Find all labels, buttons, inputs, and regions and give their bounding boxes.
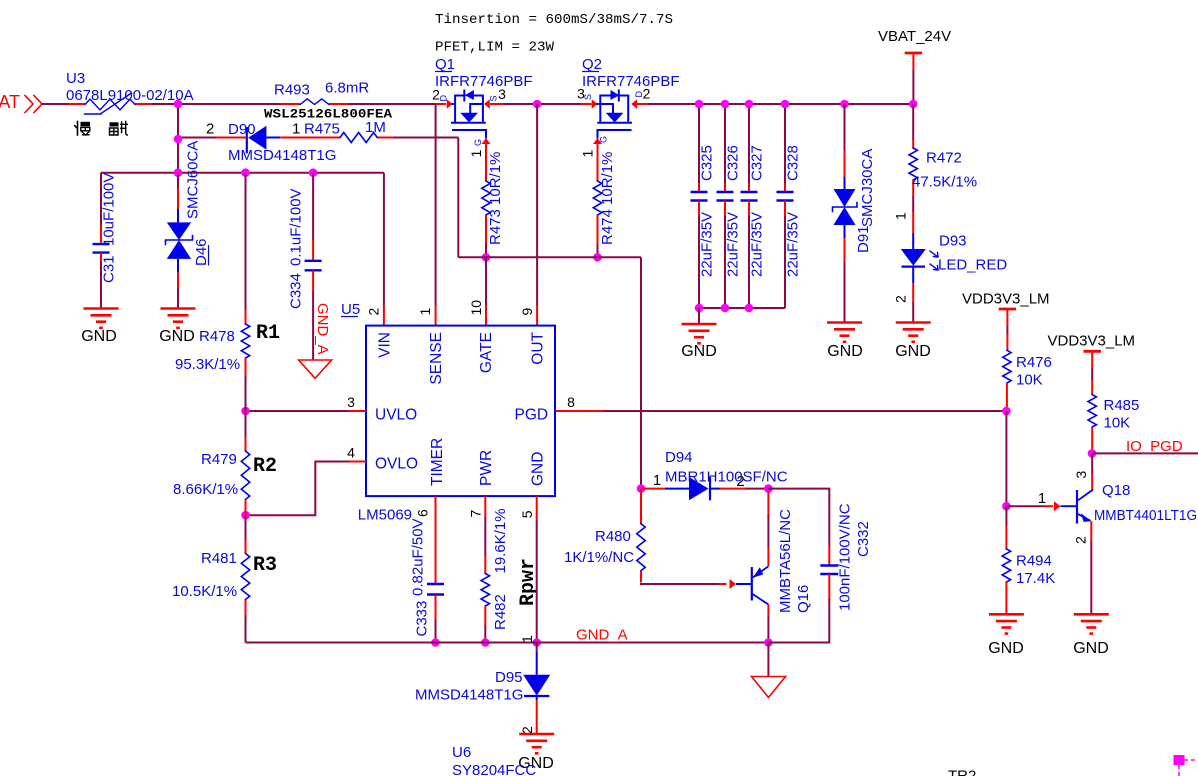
svg-text:D46: D46 [193, 238, 210, 266]
svg-text:GND: GND [681, 343, 717, 360]
node junction D90 line [174, 135, 183, 144]
node junction GND pin/D95 [532, 638, 541, 647]
svg-text:6: 6 [415, 509, 431, 517]
node junction R474 [593, 253, 602, 262]
node junction PGD/R476 [1002, 407, 1011, 416]
svg-text:0.82uF/50V: 0.82uF/50V [410, 518, 427, 596]
svg-text:GND: GND [81, 328, 117, 345]
svg-text:UVLO: UVLO [375, 407, 417, 424]
resistor R479 8.66K/1% R2 [245, 411, 247, 437]
svg-text:GND: GND [988, 640, 1024, 657]
wire PGD net [556, 410, 604, 412]
node junction Q16/GND_A [764, 638, 773, 647]
ground GND (cap bank) [698, 308, 700, 324]
svg-text:LED_RED: LED_RED [938, 257, 1007, 274]
resistor R475 1M [340, 133, 377, 143]
svg-text:GATE: GATE [478, 332, 495, 373]
text 慢 融 (slow blow) [75, 122, 78, 136]
resistor R474 10R/1% [597, 143, 599, 181]
svg-text:VDD3V3_LM: VDD3V3_LM [962, 291, 1050, 308]
svg-text:D: D [634, 91, 644, 98]
node junction Q1-Q2 source [533, 100, 542, 109]
svg-text:D95: D95 [495, 669, 523, 686]
svg-text:R473 10R/1%: R473 10R/1% [487, 152, 504, 245]
transistor Q18 MMBT4401LT1G (NPN) [1091, 453, 1093, 473]
node junction cap gnd 1 [695, 304, 704, 313]
svg-text:C328: C328 [785, 145, 802, 181]
wire OVLO net [348, 461, 366, 463]
svg-text:D91: D91 [855, 225, 872, 253]
ground GND (Q18) [1074, 613, 1109, 616]
svg-text:R3: R3 [253, 554, 277, 577]
ground GND (D91) [827, 321, 862, 324]
LED D93 LED_RED [912, 249, 914, 251]
svg-text:TR2: TR2 [948, 768, 976, 776]
svg-text:PFET,LIM = 23W: PFET,LIM = 23W [435, 41, 555, 56]
svg-text:D94: D94 [665, 449, 693, 466]
svg-text:0678L9100-02/10A: 0678L9100-02/10A [66, 87, 194, 104]
svg-text:S: S [583, 94, 593, 100]
svg-text:22uF/35V: 22uF/35V [785, 212, 802, 277]
svg-text:10uF/100V: 10uF/100V [101, 173, 118, 246]
node junction C333/GND_A [431, 638, 440, 647]
node junction cap gnd 2 [721, 304, 730, 313]
wire fuse junction drop [177, 104, 179, 139]
node junction VBAT riser [909, 100, 918, 109]
svg-text:PWR: PWR [478, 450, 495, 486]
svg-text:1: 1 [893, 212, 909, 220]
ground GND (C31) [84, 307, 119, 310]
svg-text:3: 3 [498, 86, 506, 102]
wire cap bank ground rail [699, 307, 785, 309]
svg-text:8.66K/1%: 8.66K/1% [173, 481, 238, 498]
svg-text:9: 9 [519, 308, 535, 316]
capacitor C333 0.82uF/50V [435, 496, 437, 584]
svg-text:VBAT_24V: VBAT_24V [878, 28, 951, 45]
svg-text:Q18: Q18 [1102, 482, 1130, 499]
svg-text:SENSE: SENSE [428, 332, 445, 385]
svg-text:2: 2 [893, 295, 909, 303]
node junction R482/GND_A [481, 638, 490, 647]
resistor R476 10K [1003, 350, 1011, 383]
TVS diode D46 SMCJ60CA [177, 173, 179, 189]
fuse U3 0678L9100-02/10A [85, 99, 135, 110]
svg-text:MMSD4148T1G: MMSD4148T1G [415, 687, 523, 704]
svg-text:1M: 1M [365, 119, 386, 136]
svg-text:Q16: Q16 [795, 585, 812, 613]
svg-text:2: 2 [1073, 536, 1089, 544]
svg-text:Tinsertion = 600mS/38mS/7.7S: Tinsertion = 600mS/38mS/7.7S [435, 13, 673, 28]
node junction base/R494 [1002, 502, 1011, 511]
svg-text:GND: GND [895, 343, 931, 360]
svg-text:R475: R475 [304, 121, 340, 138]
svg-text:MMSD4148T1G: MMSD4148T1G [228, 147, 336, 164]
svg-text:VBAT: VBAT [0, 92, 20, 112]
svg-text:U5: U5 [341, 301, 360, 318]
svg-text:U6: U6 [452, 744, 471, 761]
ground GND (D93) [896, 321, 931, 324]
capacitor C31 10uF/100V [100, 173, 102, 225]
svg-text:C326: C326 [725, 145, 742, 181]
svg-text:D93: D93 [939, 233, 967, 250]
wire VBAT bus [42, 103, 68, 105]
svg-text:1: 1 [468, 150, 484, 158]
svg-text:R494: R494 [1016, 553, 1052, 570]
svg-text:10K: 10K [1104, 415, 1131, 432]
svg-text:R474 10R/1%: R474 10R/1% [599, 152, 616, 245]
node junction UVLO/R478/R479 [241, 407, 250, 416]
svg-text:SMCJ60CA: SMCJ60CA [185, 141, 202, 219]
ground GND (D46) [161, 307, 196, 310]
svg-text:MBR1H100SF/NC: MBR1H100SF/NC [665, 469, 788, 486]
svg-text:PGD: PGD [515, 407, 549, 424]
wire IO_PGD [1092, 452, 1198, 454]
node junction OUT/D94 [637, 484, 646, 493]
svg-text:R472: R472 [926, 150, 962, 167]
svg-text:8: 8 [567, 394, 575, 410]
power GND_A symbol (Q16) [767, 643, 769, 677]
svg-text:1: 1 [292, 121, 300, 138]
resistor R481 10.5K/1% R3 [245, 515, 247, 540]
wire PGD to base [1005, 411, 1007, 506]
node junction R473/GATE [482, 253, 491, 262]
svg-text:17.4K: 17.4K [1016, 570, 1055, 587]
resistor R493 6.8mR [300, 99, 329, 105]
node junction cap gnd 3 [745, 304, 754, 313]
svg-text:MMBTA56L/NC: MMBTA56L/NC [777, 509, 794, 613]
svg-text:GND: GND [530, 452, 547, 486]
svg-text:C334: C334 [288, 273, 305, 309]
svg-text:D90: D90 [228, 121, 256, 138]
svg-text:R479: R479 [201, 451, 237, 468]
svg-text:1: 1 [580, 150, 596, 158]
svg-text:TIMER: TIMER [429, 438, 446, 486]
resistor R472 47.5K/1% [912, 104, 914, 140]
resistor R485 10K [1088, 395, 1096, 427]
svg-text:OUT: OUT [530, 331, 547, 364]
svg-text:C325: C325 [699, 145, 716, 181]
svg-text:22uF/35V: 22uF/35V [699, 212, 716, 277]
svg-text:MMBT4401LT1G: MMBT4401LT1G [1094, 507, 1197, 524]
node junction fuse/bus [174, 100, 183, 109]
svg-text:10K: 10K [1016, 372, 1043, 389]
svg-text:10.5K/1%: 10.5K/1% [172, 583, 237, 600]
resistor R480 1K/1%/NC [640, 489, 642, 510]
svg-text:R480: R480 [595, 528, 631, 545]
svg-text:1: 1 [1038, 490, 1046, 507]
node junction C334 [309, 168, 318, 177]
svg-text:SMCJ30CA: SMCJ30CA [859, 149, 876, 227]
wire C31/VIN rail [101, 172, 384, 174]
wire D90-R475 branch [178, 137, 216, 139]
wire D94 to C332 [768, 489, 829, 545]
wire SENSE drop [435, 104, 437, 305]
svg-text:7: 7 [468, 510, 484, 518]
svg-text:R476: R476 [1016, 354, 1052, 371]
svg-text:R478: R478 [199, 328, 235, 345]
TVS diode D91 SMCJ30CA [840, 100, 849, 109]
svg-text:R482: R482 [492, 594, 509, 630]
svg-text:IRFR7746PBF: IRFR7746PBF [582, 73, 680, 90]
resistor R473 10R/1% [485, 143, 487, 181]
svg-text:19.6K/1%: 19.6K/1% [492, 508, 509, 573]
svg-text:GND_A: GND_A [314, 303, 331, 355]
svg-text:OVLO: OVLO [375, 456, 418, 473]
wire U5 GND pin [536, 496, 538, 520]
svg-text:47.5K/1%: 47.5K/1% [912, 174, 977, 191]
svg-text:1K/1%/NC: 1K/1%/NC [564, 549, 634, 566]
wire OUT drop [536, 104, 538, 305]
svg-text:VDD3V3_LM: VDD3V3_LM [1048, 333, 1136, 350]
node junction D46 [174, 168, 183, 177]
svg-text:1: 1 [653, 472, 661, 489]
svg-text:GND: GND [159, 328, 195, 345]
capacitor C334 0.1uF/100V [312, 173, 314, 240]
ground GND (D95) [519, 733, 554, 736]
svg-text:2: 2 [366, 308, 382, 316]
wire UVLO net [348, 410, 366, 412]
node junction IO_PGD [1088, 449, 1097, 458]
node junction D94 cathode [764, 484, 773, 493]
svg-text:R2: R2 [253, 455, 277, 478]
svg-text:10: 10 [468, 300, 484, 316]
wire gate rail [458, 256, 641, 258]
svg-text:G: G [599, 136, 609, 143]
svg-text:2: 2 [206, 121, 214, 138]
svg-text:U3: U3 [66, 70, 85, 87]
svg-text:95.3K/1%: 95.3K/1% [175, 356, 240, 373]
wire GND_A rail [246, 642, 830, 644]
node junction C326 top [721, 100, 730, 109]
svg-text:SY8204FCC: SY8204FCC [452, 762, 536, 776]
power GND_A symbol (C334) [299, 360, 332, 378]
svg-text:S: S [489, 95, 499, 101]
svg-text:R1: R1 [256, 322, 280, 345]
svg-text:4: 4 [347, 445, 355, 461]
capacitor C328 22uF/35V [784, 104, 786, 183]
capacitor C332 100nF/100V/NC [828, 545, 830, 566]
svg-text:100nF/100V/NC: 100nF/100V/NC [837, 503, 854, 611]
svg-text:IRFR7746PBF: IRFR7746PBF [435, 73, 533, 90]
svg-text:C327: C327 [749, 145, 766, 181]
svg-text:GND: GND [1073, 640, 1109, 657]
svg-text:C31: C31 [101, 255, 118, 283]
selection marker [1174, 755, 1185, 765]
svg-text:3: 3 [1073, 471, 1089, 479]
capacitor C326 22uF/35V [724, 104, 726, 183]
svg-text:GND: GND [827, 343, 863, 360]
node junction C325 top [695, 100, 704, 109]
svg-text:0.1uF/100V: 0.1uF/100V [288, 188, 305, 266]
svg-text:GND_A: GND_A [576, 627, 628, 644]
svg-text:R481: R481 [201, 550, 237, 567]
svg-text:22uF/35V: 22uF/35V [725, 212, 742, 277]
node junction C327 top [745, 100, 754, 109]
svg-text:IO_PGD: IO_PGD [1126, 438, 1183, 455]
svg-text:Q1: Q1 [435, 56, 455, 73]
node junction C328 top [781, 100, 790, 109]
capacitor C325 22uF/35V [698, 104, 700, 183]
svg-text:22uF/35V: 22uF/35V [749, 212, 766, 277]
svg-text:G: G [473, 139, 483, 146]
svg-text:1: 1 [417, 308, 433, 316]
capacitor C327 22uF/35V [748, 104, 750, 183]
svg-text:R493: R493 [274, 82, 310, 99]
resistor R494 17.4K [1005, 506, 1007, 525]
node junction R478 [241, 168, 250, 177]
resistor R478 95.3K/1% R1 [245, 173, 247, 310]
svg-text:6.8mR: 6.8mR [325, 80, 369, 97]
diode D90 MMSD4148T1G [248, 126, 266, 150]
svg-text:5: 5 [519, 510, 535, 518]
svg-text:1: 1 [519, 635, 535, 643]
node junction R479/R481 [241, 511, 250, 520]
transistor Q16 MMBTA56L/NC (PNP) [719, 583, 727, 585]
svg-text:C332: C332 [855, 521, 872, 557]
svg-text:R485: R485 [1104, 397, 1140, 414]
svg-text:D: D [439, 95, 449, 102]
op-amp U5 LM5069 body [366, 326, 555, 497]
svg-text:LM5069: LM5069 [358, 507, 412, 524]
svg-text:3: 3 [347, 394, 355, 410]
svg-text:VIN: VIN [376, 332, 393, 358]
svg-text:C333: C333 [414, 601, 431, 637]
resistor R482 19.6K/1% [484, 496, 486, 517]
svg-text:Q2: Q2 [582, 56, 602, 73]
ground GND (R494) [989, 613, 1024, 616]
